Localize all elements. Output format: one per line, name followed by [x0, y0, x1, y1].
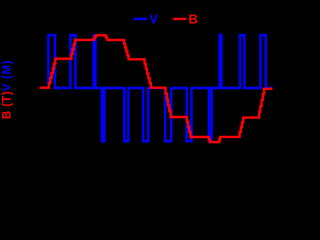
svg-text:V: V — [149, 11, 158, 26]
red B waveform (staircase) — [40, 35, 273, 142]
legend B sample line — [173, 18, 186, 20]
svg-text:B (T): B (T) — [2, 91, 14, 119]
svg-text:B: B — [189, 11, 198, 26]
svg-text:V (M): V (M) — [2, 60, 14, 92]
blue V waveform — [48, 35, 272, 142]
legend V sample line — [134, 18, 147, 21]
